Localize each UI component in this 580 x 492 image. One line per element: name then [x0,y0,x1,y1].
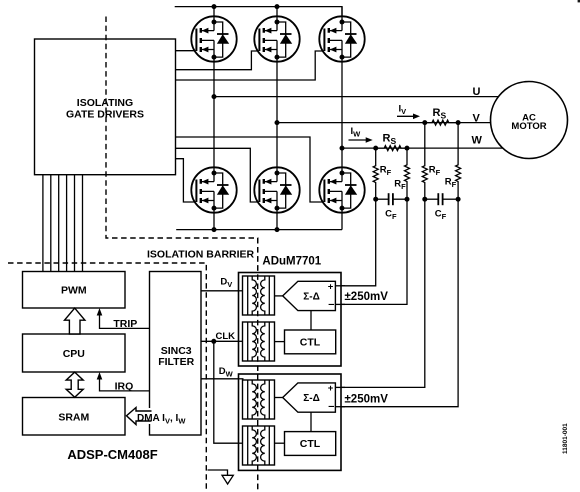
op-amp U2: sigma-delta modulator ch2 [283,383,336,413]
resistor RS (W shunt) [373,146,409,151]
wire: V phase line to motor [275,120,532,125]
wire: sigma-delta 1 output to transformer T1 [275,295,283,297]
wire: sigma-delta 1 to CTL 1 [310,311,312,330]
transformer T1 (DV data) [243,276,275,315]
AC motor [491,82,568,159]
CTL block ch2 [285,432,336,456]
isolation barrier dashed line [106,17,258,492]
transistor Q4 [191,167,236,214]
CPU block [23,334,126,372]
op-amp U1: sigma-delta modulator ch1 [283,281,336,310]
ADSP-CM408F dashed boundary [8,263,206,492]
svg-text:ADuM7701: ADuM7701 [262,256,321,268]
svg-text:–: – [328,298,334,310]
wire: DW from SINC3 to ADuM ch2 [201,378,243,380]
transistor Q6 [319,167,364,214]
svg-text:CPU: CPU [63,348,85,360]
wire: DC- bottom bus [176,227,342,232]
CTL block ch1 [285,330,336,354]
ground [208,470,234,484]
wire: DV entry stub into T1 [238,290,244,292]
svg-text:CLK: CLK [216,331,236,342]
wire + arrow: TRIP [97,308,150,330]
wire: CTL 2 to transformer T4 [275,442,285,444]
isolating gate drivers block [35,39,176,175]
svg-text:+: + [328,383,334,394]
wire: W phase line to motor [340,146,532,151]
isolating gate drivers label [66,97,144,121]
wire: gate driver outputs to PWM (6 lines) [43,175,83,272]
resistor RF (column A) + wire down to sigma-delta 1 plus input [335,148,378,286]
svg-text:SRAM: SRAM [58,411,89,423]
PWM block [23,272,126,309]
label + arrow: IW current [349,126,373,143]
svg-text:±250mV: ±250mV [345,291,389,303]
svg-text:ADSP-CM408F: ADSP-CM408F [67,447,157,462]
wire: phase W vertical (DC+ bus through Q3, Q6 to DC- bus) [341,7,343,230]
wire: gate drive Q2 [176,51,260,70]
SRAM block [23,398,126,436]
wire: CLK entry stub into T4 [238,442,245,444]
svg-text:W: W [472,135,483,147]
svg-text:U: U [473,86,481,98]
svg-text:IRQ: IRQ [115,381,134,393]
svg-text:MOTOR: MOTOR [511,121,546,132]
wire: phase V vertical (DC+ bus through Q2, Q5 to DC- bus) [276,7,278,230]
hollow arrow DMA into SRAM + label DMA IV, IW [127,408,187,426]
ADuM7701 channel 2 box [239,374,342,470]
SINC3 FILTER block [150,272,202,436]
transformer T2 (CLK ch1) [243,322,275,361]
transistor Q3 [319,16,364,63]
svg-text:±250mV: ±250mV [345,394,389,406]
wire: gate drive Q6 [176,137,325,202]
isolation barrier dashes through transformers [257,238,259,492]
svg-text:Σ-Δ: Σ-Δ [303,393,320,404]
hollow arrow CPU to PWM [65,308,85,334]
wire: U phase line to motor [212,94,532,99]
capacitor CF (W filter) [376,193,407,205]
wire: gate drive Q3 [176,51,325,80]
svg-text:PWM: PWM [61,285,87,297]
svg-text:CTL: CTL [300,337,321,349]
ADuM7701 channel 1 box [239,273,342,367]
svg-text:11801-001: 11801-001 [562,423,569,454]
svg-text:CTL: CTL [300,438,321,450]
transformer T3 (DW data) [243,380,275,419]
transistor Q2 [254,16,299,63]
resistor RF (column D) + wire down to sigma-delta 2 minus input [335,123,460,407]
wire: CLK from SINC3 to ADuM ch1 with branch to ch2 [201,339,244,443]
wire: sigma-delta 2 plus input stub [335,386,345,388]
wire: phase U vertical (DC+ bus through Q1, Q4 to DC- bus) [213,7,215,230]
wire: CLK entry stub into T2 [238,340,244,342]
svg-text:Σ-Δ: Σ-Δ [303,291,320,302]
label + arrow: IV current [397,104,420,120]
svg-text:TRIP: TRIP [113,318,137,330]
transistor Q5 [254,167,299,214]
wire: DC+ top bus [175,4,342,22]
svg-text:ISOLATION BARRIER: ISOLATION BARRIER [147,249,255,261]
wire: DV from SINC3 to ADuM ch1 [201,290,243,292]
svg-text:V: V [473,112,481,124]
transistor Q1 [191,16,236,63]
svg-text:+: + [328,281,334,292]
resistor RS (V shunt) [422,120,460,125]
wire: CTL 1 to transformer T2 [275,341,285,343]
wire: sigma-delta 2 output to transformer T3 [275,397,283,399]
hollow double arrow CPU-SRAM [66,372,83,397]
svg-text:–: – [328,401,334,413]
wire: DW entry stub into T3 [238,378,244,380]
resistor RF (column C) + wire down to sigma-delta 2 plus input [335,123,427,388]
svg-text:ISOLATING: ISOLATING [77,97,133,109]
wire: gate drive Q4 [176,159,197,202]
capacitor CF (V filter) [425,193,458,205]
wire: sigma-delta 2 minus input stub [335,406,345,408]
resistor RF (column B) + wire down to sigma-delta 1 minus input [335,148,409,304]
wire: gate drive Q1 [176,50,197,52]
wire: gate drive Q5 [176,148,260,202]
svg-text:GATE DRIVERS: GATE DRIVERS [66,109,144,121]
transformer T4 (CLK ch2) [243,426,275,465]
wire + arrow: IRQ [97,372,150,392]
svg-text:FILTER: FILTER [158,356,194,368]
wire: sigma-delta 1 plus input stub [335,285,345,287]
wire: sigma-delta 2 to CTL 2 [310,412,312,431]
wire: sigma-delta 1 minus input stub [335,303,345,305]
